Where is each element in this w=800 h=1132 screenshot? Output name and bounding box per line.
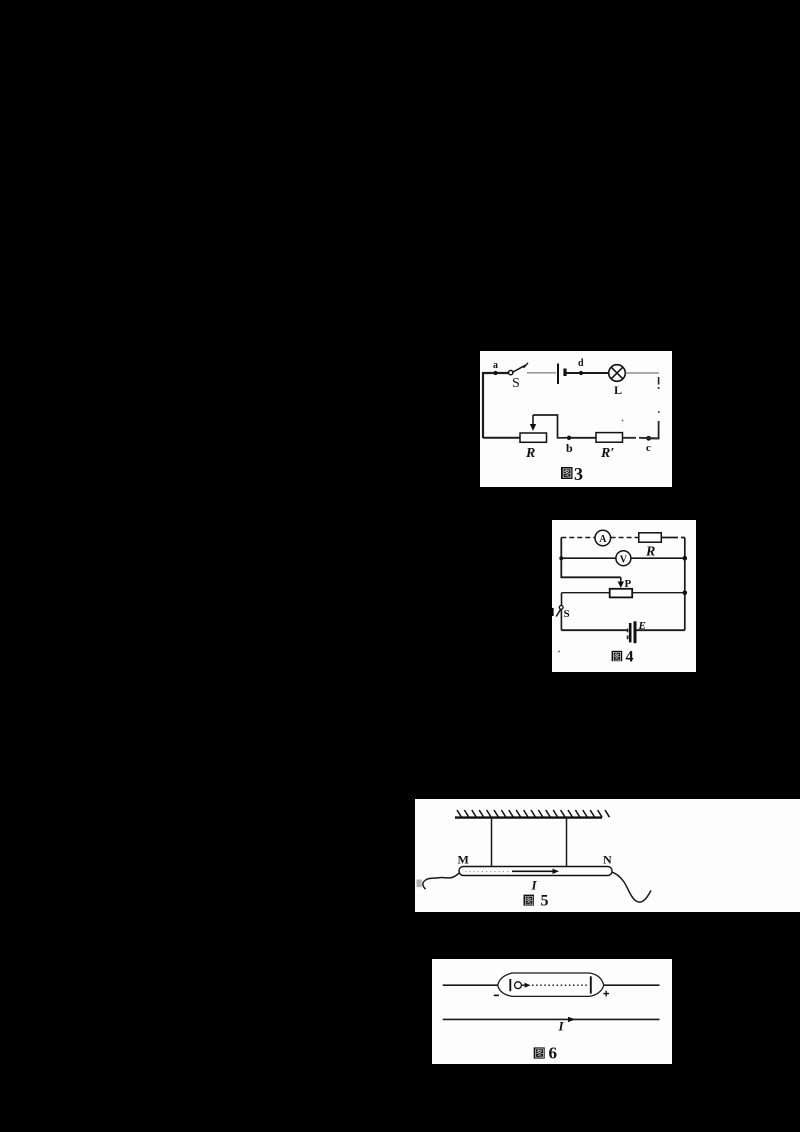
caption 图5 bbox=[524, 895, 535, 906]
resistor R body bbox=[639, 533, 662, 542]
wire: right vertical bbox=[684, 538, 686, 631]
svg-text:V: V bbox=[620, 554, 628, 565]
svg-text:图: 图 bbox=[612, 652, 622, 663]
svg-text:A: A bbox=[599, 534, 607, 545]
svg-text:4: 4 bbox=[626, 649, 634, 666]
wire: lamp to right (light) bbox=[626, 372, 660, 374]
svg-text:图: 图 bbox=[524, 895, 534, 907]
tube body bbox=[498, 973, 604, 996]
switch S bbox=[509, 370, 513, 374]
svg-text:S: S bbox=[564, 608, 570, 620]
wire: switch to battery (light) bbox=[527, 372, 556, 374]
svg-text:E: E bbox=[638, 620, 646, 632]
ammeter A bbox=[595, 530, 611, 546]
wire: top row dashed left bbox=[561, 537, 595, 539]
cathode bar bbox=[509, 979, 511, 991]
svg-text:M: M bbox=[458, 853, 469, 867]
svg-text:图: 图 bbox=[562, 468, 572, 480]
svg-text:R′: R′ bbox=[600, 446, 614, 461]
lower wire bbox=[443, 1018, 660, 1020]
svg-text:图: 图 bbox=[535, 1048, 545, 1060]
wire: A to R dashed bbox=[611, 537, 639, 539]
wire: left vertical lower bbox=[560, 593, 562, 631]
electron arrow bbox=[522, 984, 525, 986]
node d bbox=[579, 371, 583, 375]
battery E plates bbox=[627, 629, 629, 640]
rheostat wiper arrow bbox=[532, 415, 534, 425]
svg-text:I: I bbox=[531, 878, 538, 893]
caption 图4 bbox=[612, 651, 623, 661]
rheostat body bbox=[610, 589, 633, 598]
node: rheostat row right bbox=[683, 590, 688, 595]
rod inner dotted line bbox=[465, 871, 510, 873]
speck bbox=[558, 651, 560, 653]
hanger wire left bbox=[491, 818, 493, 866]
caption 图3 bbox=[561, 467, 573, 479]
battery (cell) bbox=[557, 364, 559, 385]
ceiling hatching bbox=[457, 810, 610, 817]
speck bbox=[622, 420, 624, 422]
svg-text:5: 5 bbox=[541, 893, 549, 910]
lower wire arrowhead bbox=[568, 1017, 576, 1022]
lamp L bbox=[609, 365, 626, 382]
wire: bottom row bbox=[561, 629, 684, 631]
svg-text:I: I bbox=[558, 1019, 565, 1034]
ceiling line bbox=[455, 816, 602, 818]
hanger wire right bbox=[566, 818, 568, 866]
dotted beam bbox=[532, 984, 588, 986]
rod MN bbox=[459, 867, 612, 876]
wire: left vertical top rows bbox=[561, 538, 621, 578]
svg-text:S: S bbox=[512, 376, 520, 391]
svg-text:R: R bbox=[645, 545, 655, 560]
lead wire right squiggle bbox=[612, 872, 652, 902]
wire: wiper jog bbox=[533, 415, 569, 438]
figure 6 panel bbox=[432, 959, 672, 1064]
anode bar bbox=[590, 976, 592, 993]
node a bbox=[493, 371, 497, 375]
svg-text:L: L bbox=[614, 383, 622, 397]
figure 5 panel bbox=[415, 799, 800, 912]
black nub at panel edge bbox=[552, 608, 554, 616]
node: V row left bbox=[559, 556, 563, 560]
minus sign bbox=[494, 994, 499, 996]
voltmeter V bbox=[616, 551, 631, 566]
node b bbox=[567, 436, 571, 440]
rheostat wiper arrow P bbox=[620, 577, 622, 582]
svg-text:3: 3 bbox=[574, 464, 583, 484]
node: V row right bbox=[683, 556, 688, 561]
wire through tube bbox=[443, 984, 660, 986]
wire: voltmeter row bbox=[561, 557, 685, 559]
wire: R' to c bbox=[623, 437, 659, 440]
wire: left vertical and top-left segment bbox=[483, 373, 508, 438]
rheostat R body bbox=[520, 433, 547, 442]
resistor R' body bbox=[596, 433, 623, 443]
electron circle bbox=[515, 982, 522, 989]
caption 图6 bbox=[534, 1047, 545, 1058]
svg-text:b: b bbox=[566, 441, 573, 455]
wire: R to right corner bbox=[661, 537, 685, 539]
wire: bottom left to rheostat bbox=[483, 437, 520, 439]
lead wire left squiggle bbox=[423, 873, 460, 890]
wire: rheostat row bbox=[562, 592, 685, 594]
current arrow in rod bbox=[512, 870, 553, 872]
svg-text:a: a bbox=[493, 360, 498, 371]
switch S bbox=[559, 606, 563, 610]
svg-text:c: c bbox=[646, 442, 651, 454]
svg-text:N: N bbox=[603, 853, 612, 867]
wire: battery to lamp bbox=[567, 372, 609, 374]
svg-text:R: R bbox=[525, 446, 535, 461]
wire: b to R' bbox=[569, 437, 596, 439]
plus sign bbox=[603, 991, 609, 997]
svg-text:d: d bbox=[578, 358, 584, 369]
wire: right dashed vertical bbox=[649, 377, 660, 439]
gray blotch at panel edge bbox=[417, 880, 422, 888]
figure 3 panel bbox=[480, 351, 672, 487]
svg-text:6: 6 bbox=[549, 1044, 558, 1063]
figure 4 panel bbox=[552, 520, 696, 672]
node c bbox=[646, 436, 651, 441]
